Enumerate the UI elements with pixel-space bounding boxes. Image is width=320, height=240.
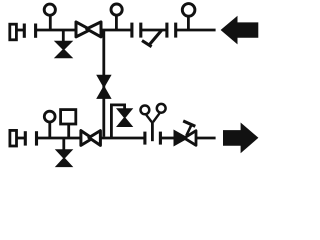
instrument square S1 stem <box>67 124 70 138</box>
instrument square S1 body <box>61 110 76 124</box>
vent valve V6 body (closed vertical bowtie) <box>118 109 132 126</box>
wire (top pipe, union 3 to inlet arrow) <box>176 29 216 32</box>
flange tick T2 (right of instrument pair) <box>159 132 162 145</box>
check valve CV1 seat tick <box>142 41 152 47</box>
gauge PI3 circle <box>182 4 195 17</box>
inlet flow arrow (points left) <box>221 16 259 45</box>
globe valve V7 right half (open) <box>184 131 196 146</box>
drain valve V4 body (closed vertical bowtie) <box>56 150 71 167</box>
union U2 tick 2 <box>139 23 142 38</box>
union U4 tick 1 <box>24 131 27 145</box>
union U3 tick 1 <box>165 23 168 38</box>
gate valve V2 right wedge <box>87 22 101 37</box>
instrument circle C1 branch <box>146 115 152 122</box>
outlet flow arrow (points right) <box>223 123 258 154</box>
wire (bottom pipe, globe valve to outlet arrow) <box>196 137 216 140</box>
drain valve V1 stem <box>62 30 65 42</box>
drain valve V4 stem <box>62 138 65 150</box>
wire (top pipe across check valve) <box>141 29 167 32</box>
wire (bottom nipple cap to union) <box>17 137 25 140</box>
globe valve V7 handle bar <box>183 121 195 126</box>
wire (bottom pipe, instrument to globe valve) <box>160 137 176 140</box>
cap F2 (bottom line blind cap) <box>10 130 17 146</box>
gate valve V5 left wedge <box>81 131 93 146</box>
gauge PI1 circle <box>44 4 55 15</box>
union U1 tick 2 <box>34 24 37 38</box>
flange tick T1 (left of instrument pair) <box>143 132 146 145</box>
gauge PI1 stem <box>49 16 52 30</box>
gate valve V5 right wedge <box>89 131 101 146</box>
valve V3 body on connector (closed vertical bowtie) <box>97 75 110 98</box>
instrument circle C2 branch <box>153 113 160 122</box>
instrument pair center stem <box>151 122 154 142</box>
wire (top pipe, gate valve to union 2) <box>101 29 132 32</box>
gauge PI4 circle <box>44 111 55 122</box>
wire (vertical connector between lines) <box>102 30 105 137</box>
cap F1 (top line blind cap) <box>10 24 17 40</box>
globe valve V7 handle stem <box>186 124 192 136</box>
gauge PI4 stem <box>48 123 51 139</box>
wire (top nipple cap to union) <box>16 29 23 32</box>
instrument circle C2 <box>157 104 166 113</box>
union U2 tick 1 <box>130 23 133 38</box>
wire (top pipe, union to gate valve) <box>36 29 77 32</box>
gate valve V2 left wedge <box>76 22 90 37</box>
check valve CV1 flap <box>149 30 161 45</box>
union U3 tick 2 <box>174 23 177 38</box>
union U4 tick 2 <box>35 131 38 145</box>
gauge PI2 stem <box>115 16 118 30</box>
vent riser wire <box>111 105 124 138</box>
wire (bottom pipe, gate valve to instrument break) <box>100 137 144 140</box>
wire (bottom pipe, union to gate valve) <box>37 137 82 140</box>
instrument circle C1 <box>141 106 150 115</box>
union U1 tick 1 <box>23 24 26 38</box>
drain valve V1 body (closed vertical bowtie) <box>56 41 72 57</box>
globe valve V7 left half (filled) <box>174 131 187 146</box>
gauge PI3 stem <box>187 17 190 31</box>
gauge PI2 circle <box>111 4 122 15</box>
